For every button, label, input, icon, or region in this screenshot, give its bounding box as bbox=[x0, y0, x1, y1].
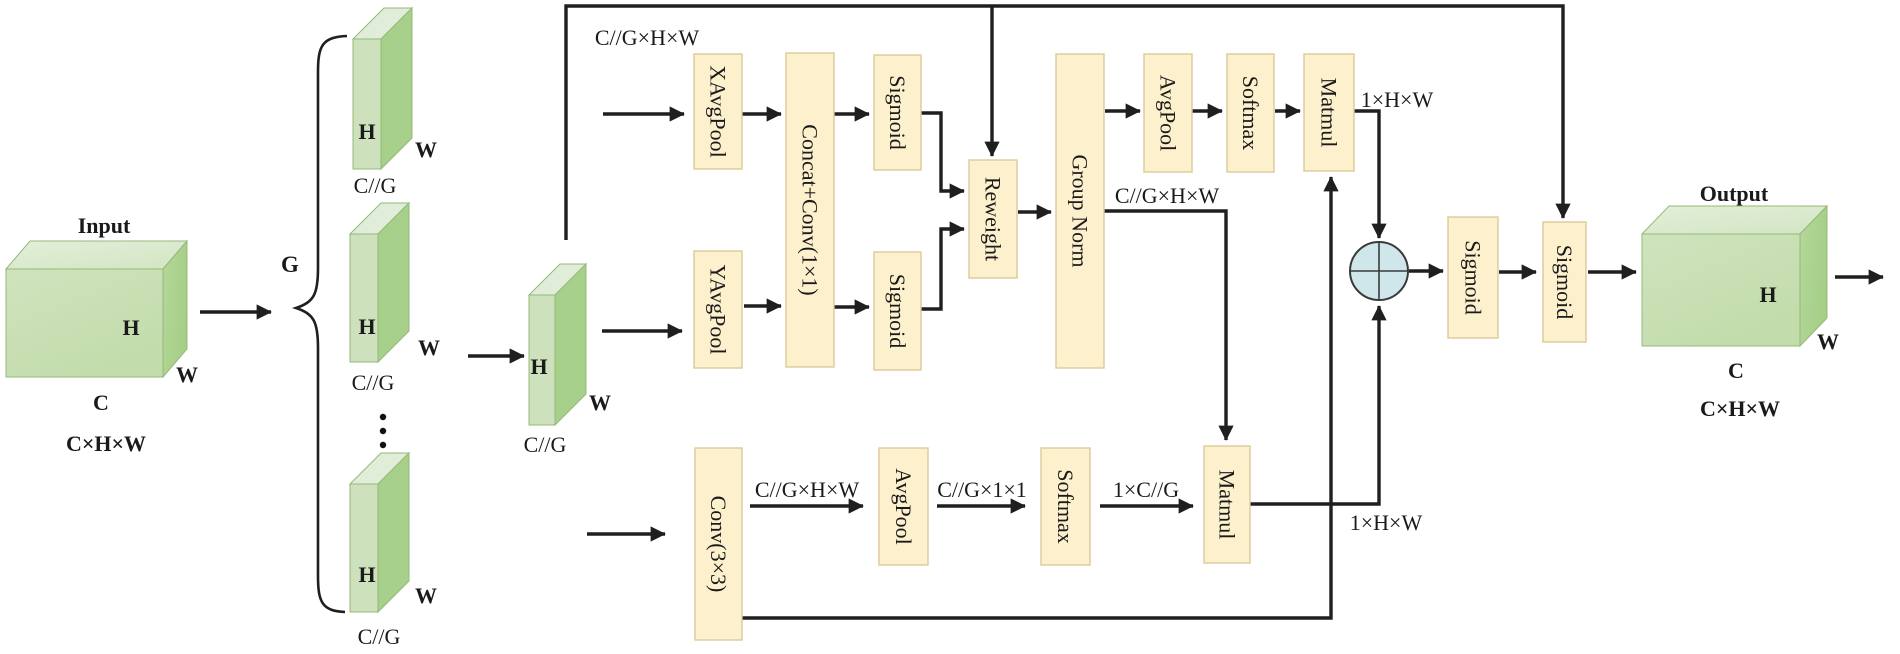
svg-text:H: H bbox=[358, 119, 375, 144]
svg-text:C//G: C//G bbox=[352, 370, 395, 395]
wire skip connection from reshaped tensor over top to final Sigmoid bbox=[566, 6, 1563, 240]
svg-text:C//G: C//G bbox=[358, 624, 401, 649]
svg-text:Softmax: Softmax bbox=[1238, 76, 1263, 151]
box Conv(3x3) bbox=[695, 448, 742, 640]
svg-text:H: H bbox=[530, 354, 547, 379]
svg-text:C//G×1×1: C//G×1×1 bbox=[937, 477, 1027, 502]
add operator circle bbox=[1350, 242, 1408, 300]
svg-text:Sigmoid: Sigmoid bbox=[1461, 240, 1486, 315]
arrow Conv(3x3) to lower AvgPool bbox=[750, 504, 863, 507]
svg-text:Group Norm: Group Norm bbox=[1068, 154, 1093, 267]
svg-text:C//G×H×W: C//G×H×W bbox=[595, 25, 699, 50]
svg-text:H: H bbox=[1759, 282, 1776, 307]
svg-text:Matmul: Matmul bbox=[1215, 470, 1240, 540]
box upper Sigmoid bbox=[874, 55, 921, 170]
arrow Reweight to Group Norm bbox=[1018, 210, 1051, 213]
wire Conv(3x3) bottom up to upper Matmul bbox=[742, 177, 1331, 618]
arrow Input to group-split brace bbox=[200, 310, 271, 313]
svg-text:W: W bbox=[589, 390, 611, 415]
svg-text:H: H bbox=[358, 562, 375, 587]
wire lower Sigmoid into Reweight bbox=[921, 229, 964, 309]
svg-text:H: H bbox=[122, 315, 139, 340]
box lower Matmul bbox=[1204, 446, 1250, 563]
arrow Concat to lower Sigmoid bbox=[833, 305, 869, 308]
svg-text:Conv(3×3): Conv(3×3) bbox=[706, 496, 731, 593]
svg-text:H: H bbox=[358, 314, 375, 339]
output tensor cuboid bbox=[1642, 206, 1827, 346]
wire lower Matmul up to add circle bbox=[1250, 306, 1379, 504]
arrow lower AvgPool to lower Softmax bbox=[937, 504, 1025, 507]
svg-text:Reweight: Reweight bbox=[981, 177, 1006, 261]
svg-text:C×H×W: C×H×W bbox=[66, 431, 146, 456]
svg-text:1×H×W: 1×H×W bbox=[1350, 510, 1423, 535]
svg-text:C//G×H×W: C//G×H×W bbox=[1115, 183, 1219, 208]
svg-text:W: W bbox=[176, 362, 198, 387]
svg-text:1×H×W: 1×H×W bbox=[1361, 87, 1434, 112]
box second Sigmoid bbox=[1543, 222, 1586, 342]
svg-text:AvgPool: AvgPool bbox=[891, 468, 916, 545]
svg-text:C//G×H×W: C//G×H×W bbox=[755, 477, 859, 502]
input tensor cuboid bbox=[6, 241, 187, 377]
brace group split G bbox=[296, 36, 347, 612]
wire upper Sigmoid into Reweight bbox=[921, 113, 964, 191]
arrow Concat to upper Sigmoid bbox=[833, 112, 869, 115]
svg-text:W: W bbox=[415, 583, 437, 608]
svg-text:W: W bbox=[1817, 329, 1839, 354]
svg-text:C: C bbox=[93, 390, 109, 415]
svg-text:G: G bbox=[281, 252, 299, 277]
wire branch from top skip down into Reweight bbox=[990, 6, 993, 156]
middle group tensor slab bbox=[529, 264, 586, 425]
box first Sigmoid bbox=[1448, 217, 1498, 338]
box Group Norm bbox=[1056, 54, 1104, 368]
svg-text:Sigmoid: Sigmoid bbox=[885, 75, 910, 150]
box upper Matmul bbox=[1304, 54, 1354, 171]
svg-text:YAvgPool: YAvgPool bbox=[706, 264, 731, 354]
box XAvgPool bbox=[694, 54, 742, 169]
arrow AvgPool to Softmax bbox=[1192, 109, 1222, 112]
arrow Output final bbox=[1835, 275, 1883, 278]
box lower Softmax bbox=[1041, 448, 1090, 565]
svg-text:Concat+Conv(1×1): Concat+Conv(1×1) bbox=[798, 124, 823, 295]
svg-text:W: W bbox=[415, 137, 437, 162]
group tensor slab 3 bbox=[350, 453, 409, 612]
wire Group Norm down to lower Matmul bbox=[1104, 211, 1226, 440]
group tensor slab 2 bbox=[350, 203, 409, 362]
arrow lower Softmax to lower Matmul bbox=[1100, 504, 1193, 507]
svg-text:Matmul: Matmul bbox=[1317, 78, 1342, 148]
svg-text:C: C bbox=[1728, 358, 1744, 383]
arrow brace to middle group tensor bbox=[468, 354, 524, 357]
box Reweight bbox=[969, 160, 1017, 278]
arrow into Conv(3x3) bbox=[587, 532, 665, 535]
svg-text:Output: Output bbox=[1700, 181, 1769, 206]
arrow tensor to YAvgPool bbox=[602, 329, 682, 332]
arrow first Sigmoid to second Sigmoid bbox=[1499, 270, 1536, 273]
svg-text:AvgPool: AvgPool bbox=[1156, 75, 1181, 152]
arrow tensor to XAvgPool bbox=[603, 112, 684, 115]
box YAvgPool bbox=[694, 251, 742, 368]
box Concat+Conv(1x1) bbox=[786, 53, 834, 367]
svg-text:C//G: C//G bbox=[524, 432, 567, 457]
arrow second Sigmoid to Output bbox=[1588, 270, 1636, 273]
svg-text:C×H×W: C×H×W bbox=[1700, 396, 1780, 421]
svg-text:Sigmoid: Sigmoid bbox=[1552, 245, 1577, 320]
box upper Softmax bbox=[1227, 54, 1274, 172]
svg-text:Input: Input bbox=[78, 213, 131, 238]
wire upper Matmul down to add circle bbox=[1354, 111, 1379, 238]
box lower Sigmoid bbox=[874, 252, 921, 370]
box lower AvgPool bbox=[879, 448, 928, 565]
arrow YAvgPool to Concat bbox=[744, 304, 781, 307]
arrow Softmax to Matmul bbox=[1275, 109, 1300, 112]
arrow XAvgPool to Concat bbox=[742, 112, 781, 115]
svg-text:XAvgPool: XAvgPool bbox=[706, 65, 731, 158]
box upper AvgPool bbox=[1144, 54, 1192, 172]
svg-text:W: W bbox=[418, 335, 440, 360]
svg-text:Softmax: Softmax bbox=[1053, 469, 1078, 544]
arrow Group Norm to AvgPool bbox=[1105, 109, 1140, 112]
svg-text:Sigmoid: Sigmoid bbox=[885, 274, 910, 349]
group tensor slab 1 bbox=[353, 8, 412, 169]
arrow add circle to first Sigmoid bbox=[1409, 269, 1443, 272]
svg-text:1×C//G: 1×C//G bbox=[1113, 477, 1179, 502]
ellipsis dots between slabs bbox=[380, 414, 386, 448]
svg-text:C//G: C//G bbox=[354, 173, 397, 198]
